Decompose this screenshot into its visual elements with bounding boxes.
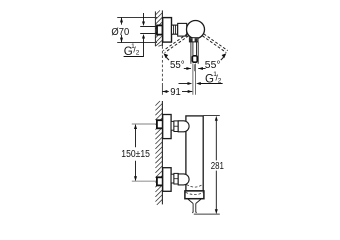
down pipe outer lines [190,42,192,64]
dim 281 bottom extension line [194,213,220,215]
svg-text:281: 281 [211,161,225,172]
pipe elbow box in wall [157,25,163,34]
hidden edge dashed arc in collar [186,192,204,194]
outlet width arrows [184,68,191,70]
union body step [178,23,187,36]
lower flange [163,168,171,192]
supply pipe lines in wall [140,26,157,28]
upper pipe centre line (grey) [132,123,158,125]
dim O70 dimension line + arrows [121,18,123,25]
upper flange [163,115,171,139]
escutcheon flange (plan) [163,18,172,42]
funnel [188,199,193,203]
wall face line [161,10,163,46]
lower union nut [174,173,178,184]
upper union nut [174,121,178,132]
upper elbow [178,121,189,132]
dim 281 top extension line [203,115,220,117]
G1/2 outlet leader with arrow [200,83,223,85]
outlet centre line [194,64,196,71]
outlet extension lines [192,64,194,95]
outlet nipple [192,56,197,62]
lower pipe centre line (grey) [132,180,158,182]
mixer body (front) [186,116,203,191]
mixer body circle (plan) [187,21,205,39]
svg-text:Ø70: Ø70 [111,27,129,38]
spout tube [192,203,194,212]
lever swing arrow left [164,53,169,58]
lower elbow [178,174,189,185]
G1/2 supply thread arrows [143,13,145,23]
wall (front) hatching [155,101,162,205]
91 extension line [161,46,163,83]
svg-text:55°: 55° [205,60,221,71]
outlet block below circle [189,38,198,42]
lower wall stub box [157,177,163,185]
lever swing arrow right [222,53,227,58]
dim O70 extension lines [117,17,157,19]
down pipe inner lines [192,42,194,55]
lower step [171,174,174,183]
wall (plan) left line [154,11,156,46]
lever swing arc stub right [221,56,224,60]
wall (plan) hatching [155,10,162,46]
dim 150±15 dimension line + arrows [135,125,137,148]
svg-text:2: 2 [136,49,140,56]
hidden edge dashed arc in body [187,184,203,187]
lever swing dashed line left [163,34,188,53]
dim 91 line + arrows [162,91,168,93]
upper wall stub box [157,120,163,128]
svg-text:150±15: 150±15 [121,149,150,160]
lever swing arc stub left [166,56,169,60]
dim 281 dimension line + arrows [215,119,217,160]
svg-text:91: 91 [170,87,181,98]
upper step [171,121,174,130]
svg-text:55°: 55° [170,60,185,71]
wall (front) face line [161,101,163,204]
threaded step [172,25,178,34]
lever swing dashed line right [202,34,227,53]
collar [185,191,204,199]
